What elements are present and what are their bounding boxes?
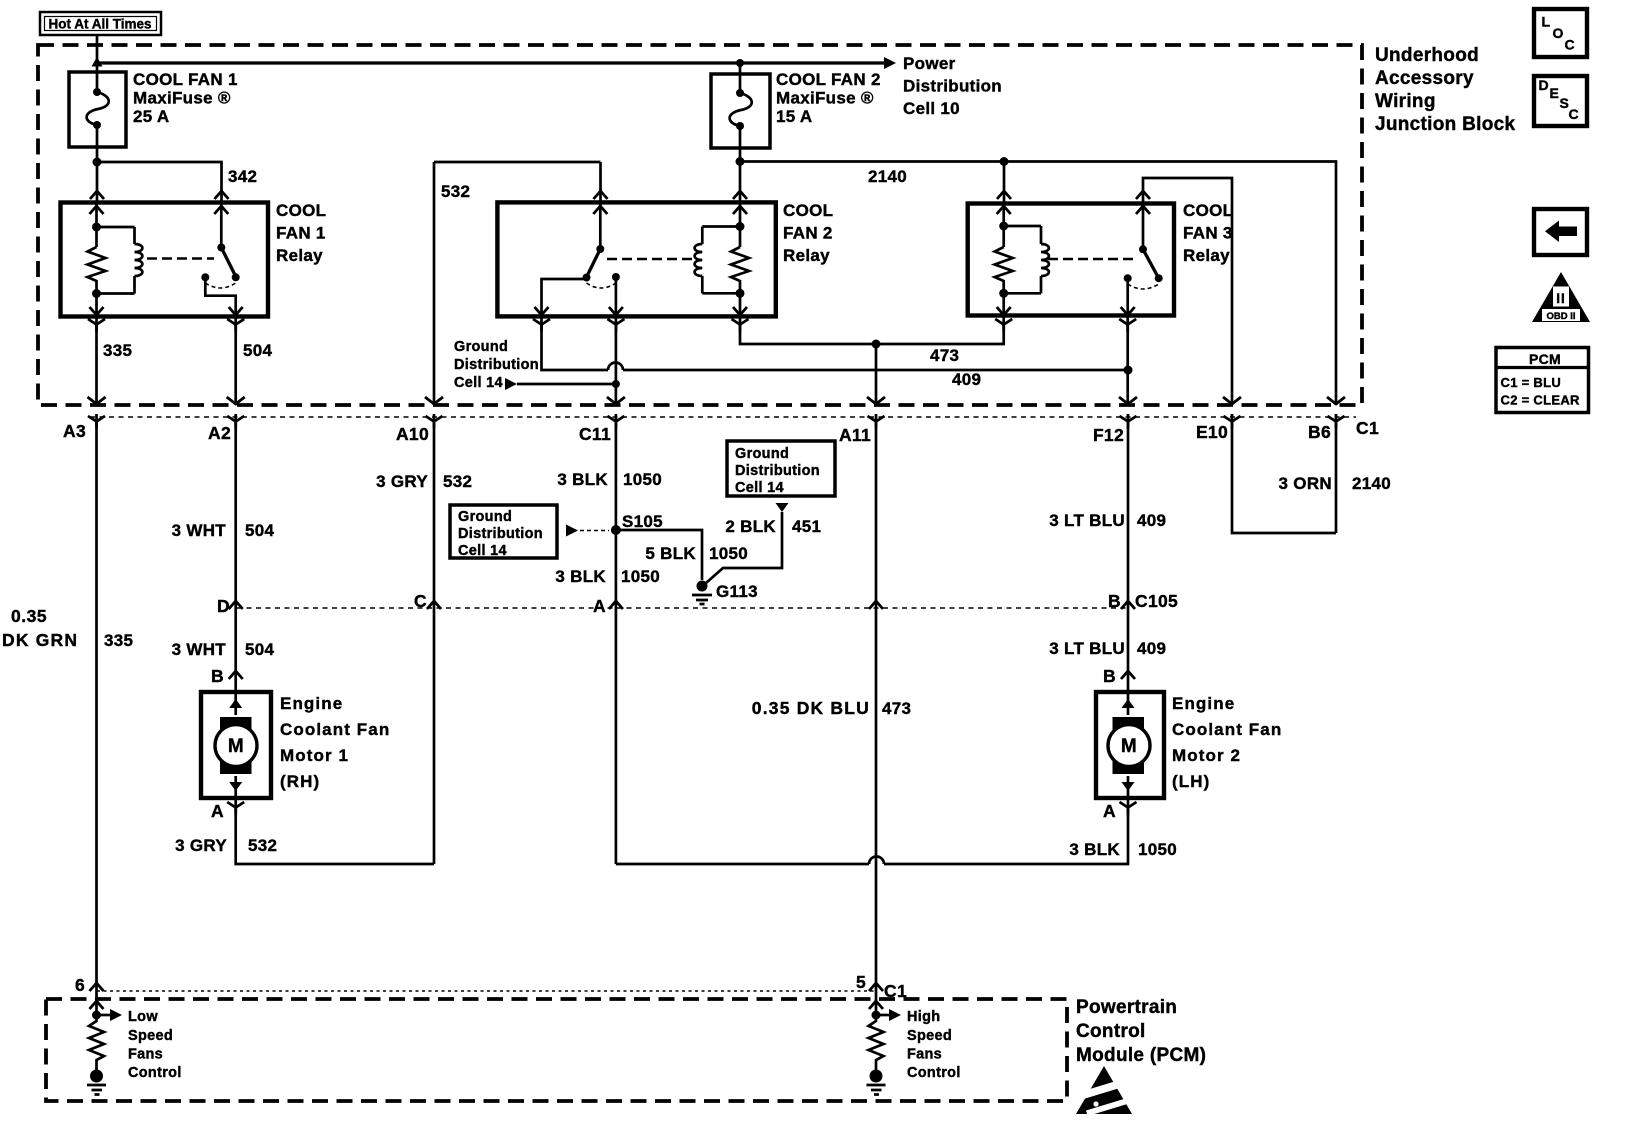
svg-text:A: A <box>1103 801 1116 821</box>
svg-text:M: M <box>1121 736 1137 757</box>
svg-text:C105: C105 <box>1135 591 1178 611</box>
svg-text:C: C <box>1565 37 1575 53</box>
svg-text:FAN 3: FAN 3 <box>1183 224 1233 243</box>
svg-text:A3: A3 <box>63 421 86 441</box>
svg-text:Wiring: Wiring <box>1375 91 1436 112</box>
svg-text:6: 6 <box>75 975 85 995</box>
svg-text:Relay: Relay <box>783 246 830 265</box>
svg-text:Low: Low <box>128 1009 158 1025</box>
svg-text:(LH): (LH) <box>1172 772 1210 791</box>
svg-text:C1: C1 <box>1356 418 1379 438</box>
svg-text:2140: 2140 <box>1352 474 1391 493</box>
svg-text:Speed: Speed <box>907 1028 952 1044</box>
svg-text:1050: 1050 <box>709 544 748 563</box>
svg-text:3 WHT: 3 WHT <box>172 640 227 659</box>
svg-text:B: B <box>1108 591 1121 611</box>
svg-text:Distribution: Distribution <box>454 357 539 373</box>
svg-text:5: 5 <box>856 972 866 992</box>
svg-text:409: 409 <box>1137 639 1166 658</box>
svg-text:B6: B6 <box>1308 422 1331 442</box>
svg-text:409: 409 <box>1137 511 1166 530</box>
svg-text:Engine: Engine <box>1172 694 1235 713</box>
svg-text:532: 532 <box>441 182 470 201</box>
svg-text:Hot At All Times: Hot At All Times <box>49 17 152 32</box>
svg-text:G113: G113 <box>716 582 758 601</box>
svg-text:5 BLK: 5 BLK <box>645 544 696 563</box>
svg-text:Control: Control <box>907 1065 961 1081</box>
svg-text:L: L <box>1542 14 1551 30</box>
svg-text:S105: S105 <box>622 512 663 531</box>
svg-text:3 ORN: 3 ORN <box>1279 474 1332 493</box>
svg-text:COOL: COOL <box>1183 201 1233 220</box>
svg-text:COOL: COOL <box>783 201 833 220</box>
svg-text:532: 532 <box>248 836 277 855</box>
svg-text:MaxiFuse ®: MaxiFuse ® <box>133 89 231 108</box>
svg-text:FAN 1: FAN 1 <box>276 224 326 243</box>
svg-text:Motor 2: Motor 2 <box>1172 746 1241 765</box>
svg-text:C1 = BLU: C1 = BLU <box>1501 375 1562 390</box>
svg-text:Module (PCM): Module (PCM) <box>1076 1045 1206 1066</box>
svg-text:C: C <box>414 591 427 611</box>
svg-text:C2 = CLEAR: C2 = CLEAR <box>1501 393 1581 408</box>
svg-text:504: 504 <box>243 341 273 360</box>
svg-text:COOL FAN 1: COOL FAN 1 <box>133 70 238 89</box>
svg-text:3 BLK: 3 BLK <box>557 470 608 489</box>
svg-text:Coolant Fan: Coolant Fan <box>280 720 390 739</box>
svg-text:A2: A2 <box>208 423 231 443</box>
svg-text:A: A <box>211 801 224 821</box>
svg-text:504: 504 <box>245 521 275 540</box>
svg-text:3 GRY: 3 GRY <box>376 472 428 491</box>
svg-text:3 BLK: 3 BLK <box>555 567 606 586</box>
svg-text:Engine: Engine <box>280 694 343 713</box>
svg-text:E: E <box>1550 85 1560 101</box>
svg-text:Ground: Ground <box>458 509 512 525</box>
svg-text:Accessory: Accessory <box>1375 68 1474 89</box>
svg-text:335: 335 <box>103 341 132 360</box>
svg-text:335: 335 <box>104 631 133 650</box>
svg-text:Motor 1: Motor 1 <box>280 746 349 765</box>
svg-text:3 WHT: 3 WHT <box>172 521 227 540</box>
svg-text:Relay: Relay <box>276 246 323 265</box>
svg-text:A: A <box>593 596 606 616</box>
svg-text:342: 342 <box>228 167 257 186</box>
svg-text:Distribution: Distribution <box>903 77 1002 96</box>
svg-text:1050: 1050 <box>621 567 660 586</box>
svg-text:3 GRY: 3 GRY <box>175 836 227 855</box>
svg-text:504: 504 <box>245 640 275 659</box>
svg-text:Junction Block: Junction Block <box>1375 114 1516 135</box>
svg-text:2140: 2140 <box>868 167 907 186</box>
svg-text:Ground: Ground <box>454 339 508 355</box>
svg-text:3 LT BLU: 3 LT BLU <box>1049 639 1125 658</box>
svg-text:DK GRN: DK GRN <box>2 630 78 650</box>
svg-text:Cell 14: Cell 14 <box>458 543 507 559</box>
svg-text:0.35: 0.35 <box>11 606 47 626</box>
svg-text:B: B <box>211 666 224 686</box>
svg-text:B: B <box>1103 666 1116 686</box>
svg-text:Relay: Relay <box>1183 246 1230 265</box>
svg-text:Ground: Ground <box>735 446 789 462</box>
svg-text:473: 473 <box>882 699 911 718</box>
svg-text:M: M <box>228 736 244 757</box>
svg-text:532: 532 <box>443 472 472 491</box>
svg-text:1050: 1050 <box>623 470 662 489</box>
svg-text:Cell 14: Cell 14 <box>454 375 503 391</box>
svg-text:High: High <box>907 1009 940 1025</box>
svg-text:Distribution: Distribution <box>458 526 543 542</box>
svg-text:Powertrain: Powertrain <box>1076 997 1177 1018</box>
svg-text:2 BLK: 2 BLK <box>725 517 776 536</box>
svg-text:3 LT BLU: 3 LT BLU <box>1049 511 1125 530</box>
svg-text:409: 409 <box>952 370 981 389</box>
svg-text:A10: A10 <box>396 424 429 444</box>
svg-text:Fans: Fans <box>128 1047 163 1063</box>
svg-text:0.35 DK BLU: 0.35 DK BLU <box>752 698 870 718</box>
svg-text:Cell 10: Cell 10 <box>903 99 960 118</box>
svg-text:Control: Control <box>1076 1021 1146 1042</box>
svg-text:C: C <box>1569 106 1579 122</box>
svg-text:(RH): (RH) <box>280 772 320 791</box>
svg-text:FAN 2: FAN 2 <box>783 224 833 243</box>
svg-text:Power: Power <box>903 54 956 73</box>
svg-text:D: D <box>217 596 230 616</box>
svg-text:3 BLK: 3 BLK <box>1069 840 1120 859</box>
svg-text:1050: 1050 <box>1138 840 1177 859</box>
svg-text:E10: E10 <box>1196 422 1228 442</box>
svg-text:F12: F12 <box>1093 425 1124 445</box>
svg-text:Underhood: Underhood <box>1375 45 1479 66</box>
svg-text:PCM: PCM <box>1529 351 1561 367</box>
svg-text:Cell 14: Cell 14 <box>735 480 784 496</box>
svg-text:473: 473 <box>930 346 959 365</box>
svg-text:COOL FAN 2: COOL FAN 2 <box>776 70 881 89</box>
svg-text:OBD II: OBD II <box>1546 311 1575 322</box>
svg-text:Distribution: Distribution <box>735 463 820 479</box>
svg-text:Control: Control <box>128 1065 182 1081</box>
svg-text:Speed: Speed <box>128 1028 173 1044</box>
svg-text:Coolant Fan: Coolant Fan <box>1172 720 1282 739</box>
svg-text:15 A: 15 A <box>776 107 812 126</box>
svg-text:C1: C1 <box>884 981 907 1001</box>
svg-text:II: II <box>1556 291 1566 306</box>
svg-text:O: O <box>1553 25 1564 41</box>
svg-text:D: D <box>1539 77 1549 93</box>
svg-text:C11: C11 <box>579 424 611 444</box>
svg-text:MaxiFuse ®: MaxiFuse ® <box>776 89 874 108</box>
svg-text:A11: A11 <box>839 425 871 445</box>
svg-text:COOL: COOL <box>276 201 326 220</box>
svg-text:451: 451 <box>792 517 821 536</box>
svg-text:25 A: 25 A <box>133 107 169 126</box>
svg-text:Fans: Fans <box>907 1047 942 1063</box>
